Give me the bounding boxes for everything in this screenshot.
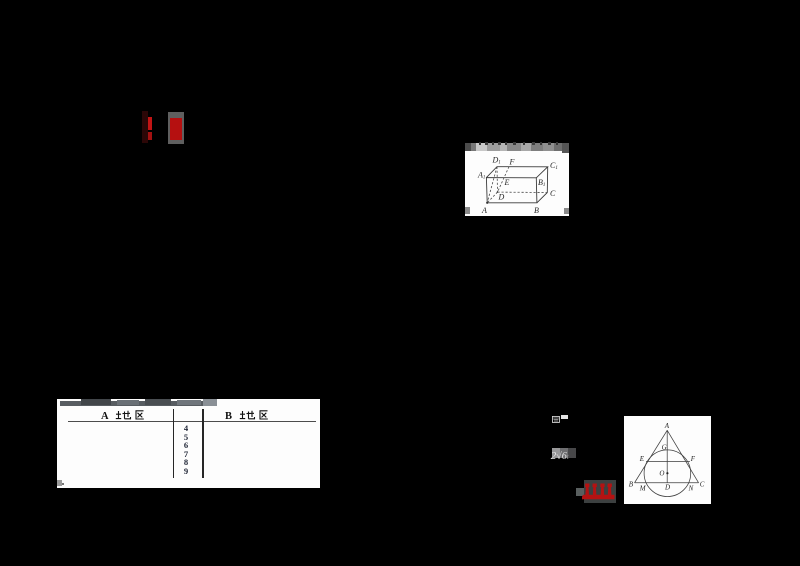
char 地 bbox=[115, 410, 130, 418]
svg-text:D1: D1 bbox=[491, 155, 500, 165]
svg-text:A: A bbox=[481, 206, 487, 215]
svg-text:N: N bbox=[688, 484, 694, 492]
diagonal D1-A bbox=[487, 166, 497, 202]
svg-text:D: D bbox=[664, 484, 670, 492]
svg-text:F: F bbox=[690, 455, 696, 463]
gray highlighted text band over figure top bbox=[465, 143, 570, 151]
hidden edge D-C bbox=[497, 191, 547, 193]
svg-text:A1: A1 bbox=[477, 170, 485, 180]
red text fragment: bright red bar upper bbox=[148, 117, 152, 130]
svg-text:B: B bbox=[629, 481, 634, 489]
svg-text:B1: B1 bbox=[538, 177, 545, 187]
svg-text:A: A bbox=[101, 411, 109, 420]
top face A1B1C1D1 bbox=[486, 166, 547, 177]
center dot O bbox=[666, 472, 668, 474]
svg-text:B: B bbox=[534, 206, 539, 215]
dark gray block behind red marks bbox=[584, 480, 616, 504]
lighter gray strip left bbox=[576, 488, 584, 496]
triangle side AB bbox=[635, 430, 668, 483]
hidden edge D1-D bbox=[496, 166, 499, 191]
svg-text:E: E bbox=[503, 178, 509, 187]
chord EF bbox=[646, 460, 690, 462]
svg-text:O: O bbox=[659, 469, 664, 477]
svg-text:A: A bbox=[664, 422, 670, 430]
red text fragment: bright red bar lower bbox=[148, 132, 151, 141]
char 区 bbox=[260, 411, 268, 419]
svg-text:C: C bbox=[700, 481, 705, 489]
triangle side AC bbox=[667, 430, 698, 483]
vertical line right bbox=[202, 409, 204, 478]
small white rect right of glyph bbox=[561, 415, 568, 418]
svg-text:G: G bbox=[662, 444, 667, 452]
hidden edge D-A bbox=[487, 192, 497, 203]
vertical line left bbox=[173, 409, 175, 478]
vertical A-D bbox=[666, 430, 668, 483]
svg-text:F: F bbox=[508, 157, 514, 166]
vertex dot D bbox=[496, 191, 498, 193]
svg-text:D: D bbox=[497, 192, 504, 201]
gray highlight block behind red glyph bbox=[168, 112, 185, 144]
gray blocks group bbox=[552, 448, 560, 458]
gray corner squares bottom of patch bbox=[465, 207, 471, 214]
vertex dot A bbox=[486, 201, 488, 203]
red text fragment: dark maroon strip bbox=[142, 111, 148, 143]
front face ABB1A1 bbox=[486, 177, 537, 202]
small white glyph mark bbox=[552, 416, 560, 423]
svg-text:C: C bbox=[550, 188, 556, 197]
char 地 bbox=[240, 411, 255, 419]
red underline bbox=[583, 495, 615, 499]
segment F-D through E bbox=[497, 166, 509, 191]
horizontal rule bbox=[68, 421, 316, 422]
header A地区 bbox=[101, 410, 153, 420]
white math glyphs over gray blocks bbox=[551, 450, 577, 464]
stem-and-leaf table patch bbox=[57, 399, 321, 488]
gray highlighted text band over table top bbox=[60, 401, 217, 406]
right face edges B-C, C-C1 bbox=[536, 166, 547, 202]
base line B-C bbox=[635, 482, 699, 484]
svg-text:C1: C1 bbox=[550, 160, 558, 170]
cuboid drawing bbox=[465, 143, 570, 216]
svg-text:M: M bbox=[639, 484, 647, 492]
svg-text:B: B bbox=[225, 411, 232, 420]
geometry figure patch (triangle + circle) bbox=[624, 416, 711, 504]
char 区 bbox=[136, 410, 144, 418]
four red strokes bbox=[582, 481, 618, 503]
svg-text:E: E bbox=[639, 455, 645, 463]
header B地区 bbox=[225, 410, 277, 420]
stem digits 4..9 bbox=[179, 424, 193, 475]
red glyph block bbox=[170, 118, 182, 140]
cuboid figure patch bbox=[465, 143, 570, 216]
small gray square bottom-left bbox=[57, 480, 62, 486]
dark text tick marks above band bbox=[479, 142, 481, 145]
circle center O bbox=[644, 450, 691, 497]
